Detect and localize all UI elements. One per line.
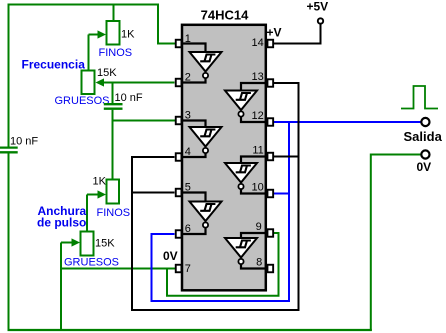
wire: black pin4-pin5 feedback frame (132, 83, 299, 310)
potentiometer R3 1K FINOS (pulse width fine) (87, 180, 119, 233)
svg-text:10 nF: 10 nF (115, 92, 143, 104)
wire: stub to R1 top (113, 4, 115, 23)
inverter U1E pins 11-10 (225, 157, 267, 194)
wire: ground to pin 7 (61, 268, 176, 270)
pin 8 (256, 257, 273, 273)
inverter U1A pins 1-2 (182, 44, 222, 83)
wire: blue pin 10 branch (273, 193, 290, 195)
svg-text:1K: 1K (93, 176, 107, 188)
potentiometer R2 15K GRUESOS (frequency coarse) (82, 71, 175, 95)
pulse waveform icon (401, 86, 438, 109)
svg-text:de pulso: de pulso (37, 216, 86, 230)
wire: black pin 5 branch (131, 192, 175, 194)
inverter U1C pins 5-6 (182, 193, 222, 235)
terminal 0V (421, 150, 429, 158)
pin 4 (176, 146, 191, 161)
svg-text:10 nF: 10 nF (10, 135, 38, 147)
wire: 0V terminal to ground (371, 155, 421, 332)
svg-text:15K: 15K (95, 238, 115, 250)
pin 11 (252, 145, 273, 161)
pin 6 (176, 223, 191, 238)
wire: black pin 11 branch (273, 156, 300, 158)
svg-text:FINOS: FINOS (99, 47, 133, 59)
label Anchura de pulso (37, 204, 87, 230)
wire: green loop pin 7 to pin 9 (167, 233, 279, 296)
pin 7 (176, 263, 191, 275)
inverter U1B pins 3-4 (182, 121, 222, 158)
terminal Salida (421, 118, 429, 126)
pin 9 (256, 221, 273, 237)
wire: left vertical to C1 (8, 4, 10, 148)
svg-text:11: 11 (252, 145, 263, 157)
svg-text:74HC14: 74HC14 (201, 8, 249, 23)
wire: +5V to pin 14 (273, 25, 321, 44)
inverter U1F pins 13-12 (225, 83, 267, 122)
capacitor C1 10nF (timing) (0, 148, 18, 331)
potentiometer R1 1K FINOS (frequency fine) (89, 21, 120, 72)
wire: node down to R3 (112, 121, 114, 181)
svg-text:Frecuencia: Frecuencia (22, 57, 86, 71)
wire: down to pin 1 (158, 4, 176, 44)
svg-text:+V: +V (267, 26, 282, 40)
capacitor C2 10nF (coupling) (104, 83, 123, 122)
pin 12 (252, 110, 274, 126)
pin 13 (252, 71, 274, 87)
svg-text:GRUESOS: GRUESOS (55, 95, 110, 107)
svg-text:14: 14 (252, 37, 264, 49)
svg-text:12: 12 (252, 110, 264, 122)
IC U1 74HC14 body (182, 25, 266, 291)
inverter U1D pins 9-8 (225, 233, 267, 269)
svg-text:8: 8 (256, 257, 262, 269)
svg-text:9: 9 (256, 221, 262, 233)
wire: blue vertical outputs junction (288, 122, 290, 302)
svg-text:Salida: Salida (404, 129, 443, 144)
pin 2 (176, 72, 191, 87)
svg-text:+5V: +5V (307, 0, 329, 13)
pin 14 (252, 37, 274, 49)
wire: blue pin 12 to Salida (273, 121, 421, 123)
pin 1 (176, 33, 191, 47)
wire: blue pin 6 to output loop (152, 234, 290, 301)
wire: +V rail from pin1 (top horizontal) (8, 4, 159, 6)
svg-text:FINOS: FINOS (97, 207, 131, 219)
potentiometer R4 15K GRUESOS (pulse width coarse) (61, 232, 94, 332)
svg-text:0V: 0V (417, 160, 432, 174)
wire: C2 to pin 3 (112, 120, 176, 122)
svg-text:0V: 0V (163, 249, 178, 263)
pin 10 (252, 182, 274, 198)
svg-text:GRUESOS: GRUESOS (64, 257, 119, 269)
svg-text:13: 13 (252, 71, 264, 83)
wire: ground rail (8, 329, 372, 331)
svg-text:1K: 1K (121, 29, 135, 41)
pin 5 (176, 182, 191, 197)
terminal +5V (318, 18, 323, 23)
svg-text:10: 10 (252, 182, 264, 194)
svg-text:7: 7 (185, 263, 191, 275)
svg-text:15K: 15K (97, 67, 117, 79)
pin 3 (176, 110, 191, 125)
